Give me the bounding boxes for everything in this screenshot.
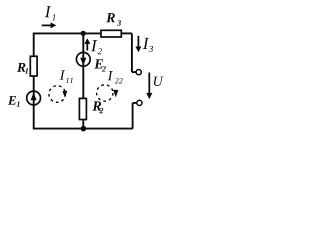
label I11 sub <box>66 78 73 83</box>
arrow U <box>146 73 152 100</box>
label R1 main <box>17 63 26 72</box>
wire bottom horizontal <box>33 128 133 130</box>
terminal upper <box>136 70 141 75</box>
loop I22 dashed circle <box>97 85 113 101</box>
source E1 circle <box>27 91 41 105</box>
label I3 main <box>143 38 149 49</box>
arrow I2 <box>84 38 90 50</box>
wire top left horizontal <box>34 32 101 34</box>
label I1 sub <box>52 14 55 20</box>
label E2 sub <box>102 66 106 71</box>
source E1 arrowhead <box>31 93 37 101</box>
loop I11 arrowhead <box>62 91 67 98</box>
label E1 main <box>8 96 16 105</box>
wire left vertical R1-to-E1 and through E1 to bottom <box>33 76 35 129</box>
wire stub from lower terminal <box>133 102 137 104</box>
label I11 main <box>60 70 65 79</box>
wire right vertical upper <box>131 33 133 72</box>
label E2 main <box>94 59 103 68</box>
label I1 main <box>45 6 51 17</box>
wire middle vertical upper (through E2) <box>82 33 84 98</box>
label R1 sub <box>25 68 28 73</box>
wire middle vertical lower <box>82 120 84 129</box>
wire left vertical upper <box>33 33 35 57</box>
source E2 arrowhead <box>80 58 86 65</box>
wire stub to upper terminal <box>132 71 136 73</box>
label E1 sub <box>17 101 20 106</box>
arrow I1 <box>42 22 57 28</box>
label I2 main <box>91 40 97 51</box>
label R3 sub <box>117 20 121 25</box>
label I2 sub <box>98 48 102 54</box>
wire top right (R3 to corner) <box>121 32 132 34</box>
terminal lower <box>137 100 142 105</box>
label R2 sub <box>99 108 103 113</box>
junction node top <box>81 31 86 36</box>
label I22 main <box>108 71 113 80</box>
label U <box>154 77 164 86</box>
resistor R2 <box>79 98 86 119</box>
loop I11 dashed circle <box>49 86 66 103</box>
arrow I3 <box>135 36 141 52</box>
source E2 circle <box>76 52 90 66</box>
label I3 sub <box>149 46 153 52</box>
resistor R3 <box>101 30 121 37</box>
label I22 sub <box>115 78 123 83</box>
label R3 main <box>106 13 115 22</box>
resistor R1 <box>30 56 37 76</box>
wire right vertical lower <box>132 103 134 129</box>
loop I22 arrowhead <box>113 90 118 98</box>
label R2 main <box>92 101 101 110</box>
junction node bottom <box>81 126 87 132</box>
